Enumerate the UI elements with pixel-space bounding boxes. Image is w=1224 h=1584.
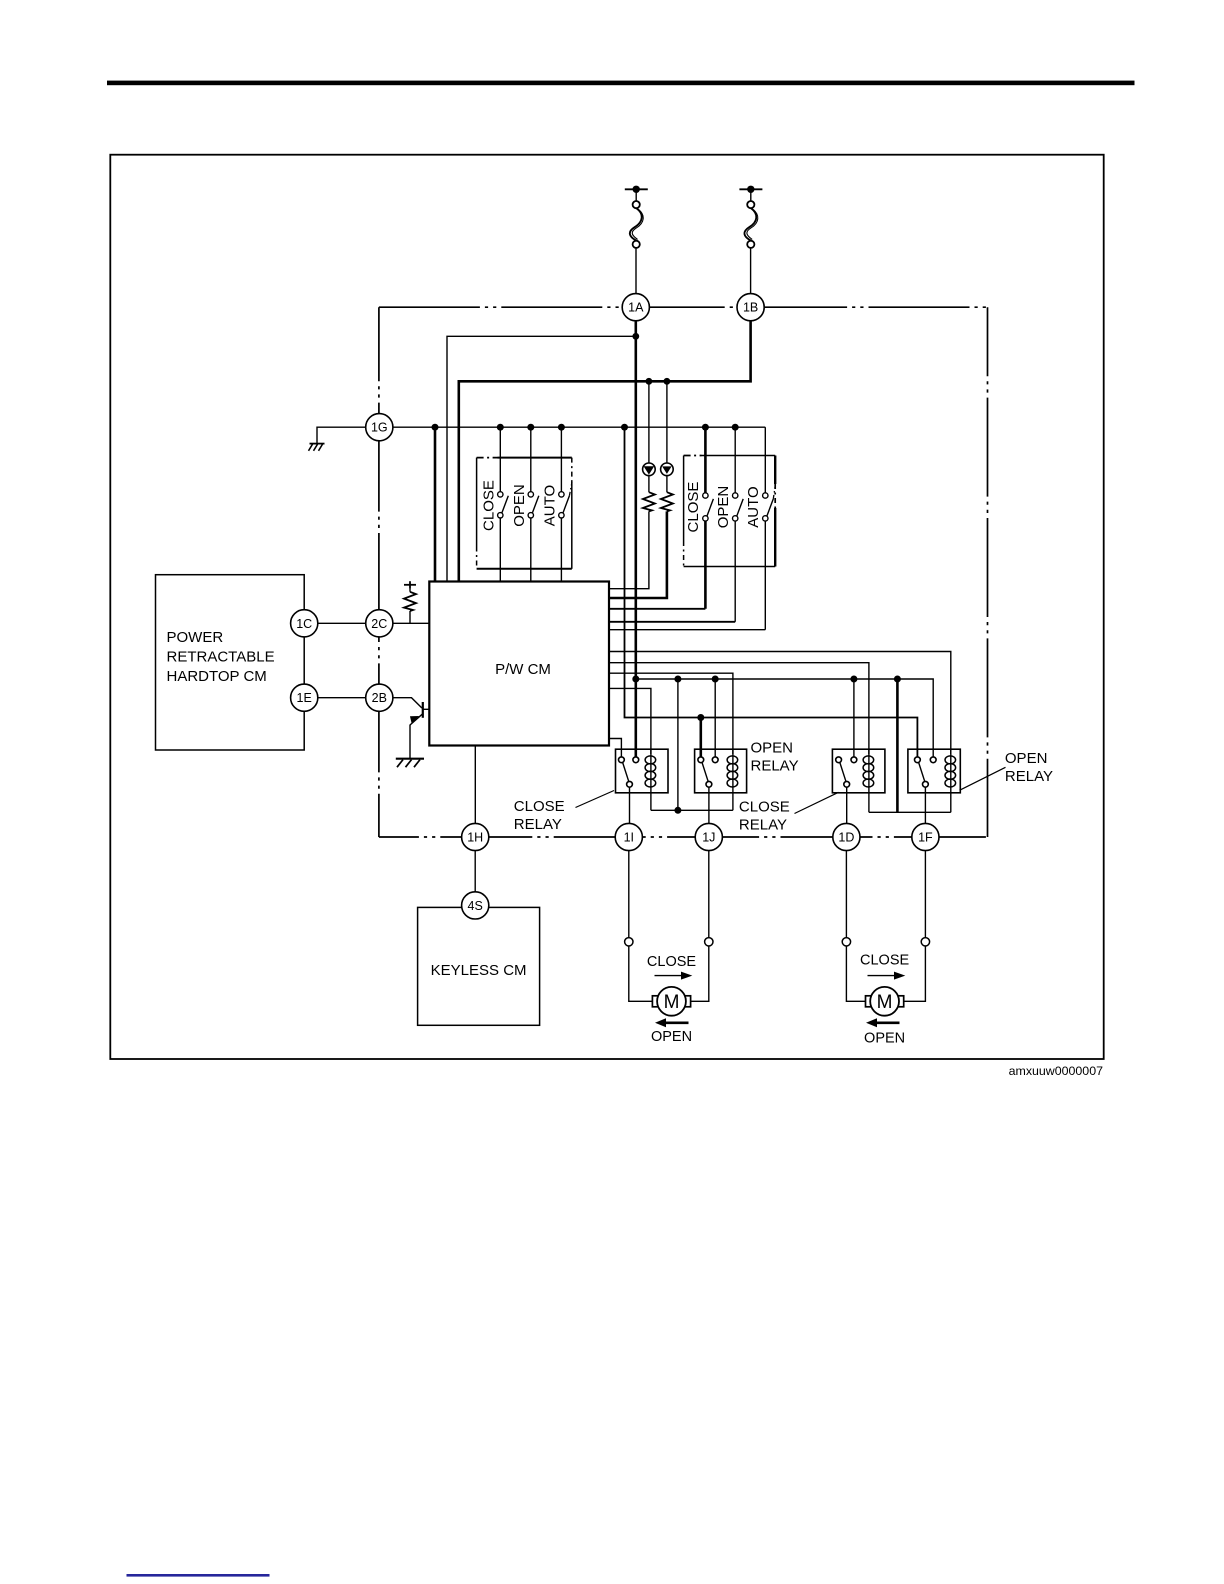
K4 coil xyxy=(950,749,952,793)
ground G1 xyxy=(310,443,325,445)
wire 2C to P/W CM xyxy=(393,622,429,624)
svg-text:1E: 1E xyxy=(297,691,312,705)
power retractable hardtop cm box xyxy=(156,575,305,750)
wire resistor R2 down to P/W CM bold xyxy=(609,511,667,598)
node lamp1 tap xyxy=(646,378,653,385)
fuse F1 body xyxy=(635,189,637,201)
svg-text:CLOSE: CLOSE xyxy=(647,954,696,970)
open relay K2 box xyxy=(695,749,747,793)
wire dash-dot harness left (through 1G 2C 2B) xyxy=(378,307,380,837)
open relay K4 box xyxy=(908,749,960,793)
K3 pivot contact xyxy=(836,757,842,763)
wire 1H to 4S xyxy=(474,851,476,892)
svg-text:P/W CM: P/W CM xyxy=(495,661,551,678)
node rail A xyxy=(432,424,439,431)
wire P/W CM to close relay 2 coil xyxy=(609,663,869,754)
wire B+ to resistor xyxy=(409,589,411,592)
svg-text:CLOSE: CLOSE xyxy=(860,953,909,969)
svg-text:CLOSE: CLOSE xyxy=(685,482,702,533)
svg-text:M: M xyxy=(664,992,680,1013)
svg-text:HARDTOP CM: HARDTOP CM xyxy=(167,668,267,685)
connector 1A xyxy=(622,294,649,321)
wire P/W CM to right CLOSE switch xyxy=(609,608,705,610)
svg-text:OPEN: OPEN xyxy=(1005,750,1048,767)
wire K3 output to 1D xyxy=(846,787,848,823)
connector 1C xyxy=(291,610,318,637)
svg-text:1H: 1H xyxy=(467,831,483,845)
wire 1G to ground xyxy=(317,427,366,443)
wire lamp1 to resistor xyxy=(648,476,650,493)
wire dist to coil common 2 bold xyxy=(896,679,899,812)
K2 fixed contact xyxy=(712,757,718,763)
transistor Q1 emitter with arrow xyxy=(410,714,423,725)
K2 coil xyxy=(732,749,734,793)
switch SW3 AUTO (left box) xyxy=(560,427,562,491)
wire P/W CM to close relay 1 coil xyxy=(609,688,651,754)
svg-text:CLOSE: CLOSE xyxy=(480,480,497,531)
wire coil bottoms relays 1-2 xyxy=(650,793,652,811)
K1 fixed contact xyxy=(633,757,639,763)
lamp L1 xyxy=(643,463,656,476)
callout close relay middle xyxy=(795,792,839,813)
node rail F xyxy=(702,424,709,431)
svg-text:OPEN: OPEN xyxy=(715,486,732,529)
wire 1J to motor1 xyxy=(708,851,710,938)
K4 blade xyxy=(919,762,925,781)
svg-text:1G: 1G xyxy=(371,421,388,435)
wire lamp1 chain xyxy=(648,381,650,463)
node relay common row xyxy=(697,714,704,721)
node coil common 1 xyxy=(674,807,681,814)
svg-text:1D: 1D xyxy=(838,831,854,845)
wire dash-dot harness top (through 1A 1B) xyxy=(379,306,988,308)
svg-text:RELAY: RELAY xyxy=(751,758,799,775)
svg-text:2C: 2C xyxy=(371,617,387,631)
wire 1I to motor1 xyxy=(628,851,630,938)
close relay K1 box xyxy=(616,749,669,793)
label open arrow motor1 xyxy=(663,1021,689,1024)
svg-text:1A: 1A xyxy=(628,301,644,315)
svg-text:RELAY: RELAY xyxy=(739,817,787,834)
connector 1G xyxy=(366,414,393,441)
svg-text:RELAY: RELAY xyxy=(514,816,562,833)
switch SW6 AUTO (right box) xyxy=(764,427,766,492)
wire coil bottoms relays 3-4 xyxy=(868,793,870,813)
node rail G xyxy=(732,424,739,431)
resistor R3 pull-up xyxy=(404,592,416,611)
svg-text:KEYLESS CM: KEYLESS CM xyxy=(431,962,527,979)
node on F2 bar xyxy=(747,186,754,193)
wire P/W CM to right AUTO switch xyxy=(609,629,765,631)
svg-text:CLOSE: CLOSE xyxy=(739,799,790,816)
svg-text:OPEN: OPEN xyxy=(751,740,794,757)
wire ground rail to P/W CM bold xyxy=(434,427,437,581)
wire dist to relay2 contact xyxy=(714,679,716,757)
wire resistor R1 down to P/W CM xyxy=(609,511,649,588)
wire K4 output to 1F xyxy=(924,787,926,823)
node on F1 bar xyxy=(633,186,640,193)
connector 1J xyxy=(695,823,722,850)
wire P/W CM to open relay 1 coil xyxy=(609,673,733,754)
connector 2C xyxy=(366,610,393,637)
wire 1G ground rail xyxy=(393,426,765,428)
wire lamp2 to resistor xyxy=(666,476,668,493)
wire 2B to transistor base xyxy=(393,698,422,708)
label open arrow motor2 xyxy=(874,1021,900,1024)
keyless cm box xyxy=(418,907,540,1025)
connector 1I xyxy=(615,823,642,850)
connector 1E xyxy=(291,684,318,711)
transistor Q1 base bar xyxy=(422,702,424,718)
connector 1B xyxy=(737,294,764,321)
fuse F1 top bar xyxy=(625,188,648,190)
connector 1H xyxy=(462,823,489,850)
svg-text:1J: 1J xyxy=(702,831,715,845)
diagram frame xyxy=(110,155,1103,1059)
svg-text:RELAY: RELAY xyxy=(1005,768,1053,785)
svg-text:OPEN: OPEN xyxy=(651,1029,692,1045)
ground G2 xyxy=(396,758,424,760)
K1 coil xyxy=(650,749,652,793)
B+ symbol xyxy=(404,584,416,586)
wire emitter to ground xyxy=(409,725,411,759)
svg-text:1C: 1C xyxy=(296,617,312,631)
wire K1 output to 1I xyxy=(629,787,631,823)
node rail C xyxy=(527,424,534,431)
svg-text:POWER: POWER xyxy=(167,629,224,646)
connector 2B xyxy=(366,684,393,711)
svg-text:OPEN: OPEN xyxy=(864,1031,905,1047)
wire P/W CM to 1H xyxy=(474,746,476,824)
svg-text:OPEN: OPEN xyxy=(511,484,528,527)
wire P/W CM to right OPEN switch xyxy=(609,621,735,623)
connector 1D xyxy=(833,823,860,850)
motor M1 xyxy=(652,996,658,1007)
svg-text:4S: 4S xyxy=(468,899,483,913)
switch SW5 OPEN (right box) xyxy=(734,427,736,492)
K3 blade xyxy=(840,762,846,781)
wire dist to relay3 contact xyxy=(853,679,855,757)
wire dash-dot harness right xyxy=(987,307,989,837)
wire 1A branch to P/W CM xyxy=(447,336,636,581)
callout open relay right xyxy=(960,767,1006,790)
svg-text:AUTO: AUTO xyxy=(542,485,559,526)
K4 fixed contact xyxy=(930,757,936,763)
node dist 3 xyxy=(712,676,719,683)
left switch box border xyxy=(477,457,498,459)
node 1A branch xyxy=(632,333,639,340)
node rail B xyxy=(497,424,504,431)
wire K2 output to 1J xyxy=(708,787,710,823)
K1 blade xyxy=(623,762,629,781)
wire dash-dot connector bus (through 1H 1I 1J 1D 1F) xyxy=(379,836,988,838)
node dist 5 xyxy=(894,676,901,683)
wire lamp2 chain xyxy=(666,381,668,463)
wire 1C to 2C xyxy=(318,622,366,624)
K4 output contact xyxy=(923,781,929,787)
svg-text:RETRACTABLE: RETRACTABLE xyxy=(167,649,275,666)
wire 1F to motor2 xyxy=(924,851,926,938)
connector 4S xyxy=(462,892,489,919)
svg-text:1I: 1I xyxy=(624,831,634,845)
op-amp module P/W CM box xyxy=(429,582,609,746)
footer link rule xyxy=(127,1574,270,1577)
K4 pivot contact xyxy=(915,757,921,763)
svg-text:1B: 1B xyxy=(743,301,758,315)
svg-text:1F: 1F xyxy=(918,831,933,845)
fuse F2 top bar xyxy=(739,188,762,190)
K2 blade xyxy=(702,762,708,781)
K1 pivot contact xyxy=(619,757,625,763)
fuse F2 body xyxy=(750,189,752,201)
switch SW1 CLOSE (left box) xyxy=(499,427,501,491)
K2 pivot contact xyxy=(698,757,704,763)
wire resistor R3 to 2C line xyxy=(409,611,411,623)
callout close relay left xyxy=(576,791,615,808)
svg-text:2B: 2B xyxy=(372,691,387,705)
wire 1B battery feed down xyxy=(459,321,751,582)
wire 1E to 2B xyxy=(318,697,366,699)
right switch box border xyxy=(684,455,702,457)
wire common row to relay2 pivot bold xyxy=(699,718,702,758)
top rule xyxy=(107,81,1135,86)
wire dist to coil common 1 xyxy=(677,679,679,810)
lamp L2 xyxy=(661,463,674,476)
wire 1D to motor2 xyxy=(845,851,847,938)
wire 1A battery feed down xyxy=(634,321,637,757)
svg-text:CLOSE: CLOSE xyxy=(514,798,565,815)
node rail E xyxy=(621,424,628,431)
wire P/W CM to open relay 2 coil xyxy=(609,652,951,755)
node rail D xyxy=(558,424,565,431)
wire P/W CM stub to relay1 pivot xyxy=(609,739,621,758)
wire F1 to 1A xyxy=(635,248,637,294)
wire 1A distribution to relay contacts xyxy=(636,679,933,757)
node dist 4 xyxy=(850,676,857,683)
switch SW4 CLOSE (right box) xyxy=(704,427,707,492)
node dist 1 xyxy=(632,676,639,683)
wire F2 to 1B xyxy=(750,248,752,294)
svg-text:AUTO: AUTO xyxy=(745,486,762,527)
svg-text:M: M xyxy=(877,992,893,1013)
node lamp2 tap xyxy=(664,378,671,385)
node dist 2 xyxy=(674,676,681,683)
K1 output contact xyxy=(627,781,633,787)
motor M2 xyxy=(866,996,872,1007)
svg-text:amxuuw0000007: amxuuw0000007 xyxy=(1009,1064,1103,1078)
K2 output contact xyxy=(706,781,712,787)
resistor R1 xyxy=(643,492,655,511)
wire rail to relay common row xyxy=(625,427,918,757)
resistor R2 xyxy=(661,492,673,511)
connector 1F xyxy=(912,823,939,850)
K3 coil xyxy=(868,749,870,793)
K3 output contact xyxy=(844,781,850,787)
close relay K3 box xyxy=(832,749,885,793)
K3 fixed contact xyxy=(851,757,857,763)
switch SW2 OPEN (left box) xyxy=(530,427,532,491)
transistor Q1 collector xyxy=(423,708,430,710)
